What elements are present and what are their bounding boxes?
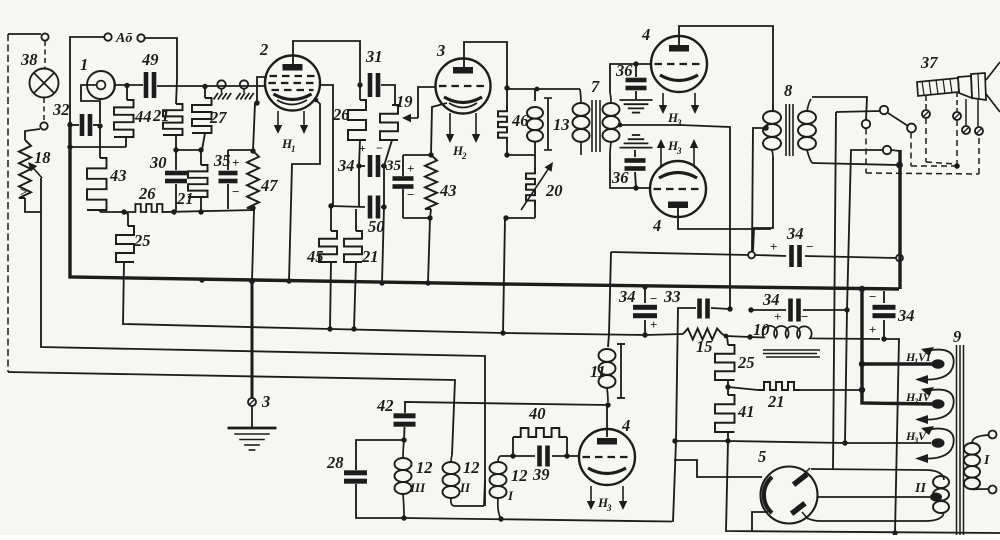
connector pin 3 bbox=[962, 99, 970, 134]
svg-text:+: + bbox=[774, 309, 781, 324]
transformer T9 core bbox=[953, 327, 964, 535]
svg-text:37: 37 bbox=[920, 53, 938, 72]
wire 7sec top to grid bbox=[610, 64, 651, 93]
terminal B+ on main bbox=[896, 255, 903, 262]
node c34a left bbox=[356, 163, 361, 168]
svg-text:21: 21 bbox=[152, 106, 170, 125]
node element1 lead bbox=[124, 83, 129, 88]
svg-text:34: 34 bbox=[618, 287, 636, 306]
svg-text:18: 18 bbox=[34, 148, 51, 167]
dashed y174 bbox=[866, 173, 979, 174]
capacitor C49 bbox=[141, 50, 159, 98]
wire coil11 top bbox=[608, 252, 611, 347]
svg-text:47: 47 bbox=[260, 176, 278, 195]
wire 46 col down W1 bbox=[503, 218, 505, 333]
node coil3 bottom bbox=[401, 515, 406, 520]
resistor R21c bbox=[344, 209, 379, 329]
svg-text:26: 26 bbox=[138, 184, 156, 203]
svg-text:41: 41 bbox=[737, 402, 755, 421]
node C33 right bbox=[727, 306, 732, 311]
svg-text:II: II bbox=[914, 481, 926, 496]
node bus 202 bbox=[199, 277, 204, 282]
inductor L46 tap section bbox=[498, 88, 507, 155]
wire C28 bottom bbox=[356, 484, 404, 518]
wire tube2 grid2 bbox=[257, 77, 267, 103]
svg-text:>: > bbox=[20, 184, 27, 199]
node bus 428 bbox=[425, 280, 430, 285]
terminal sw C bbox=[907, 124, 916, 133]
terminal phones 1 bbox=[214, 80, 232, 99]
svg-text:IV: IV bbox=[917, 390, 932, 404]
svg-text:7: 7 bbox=[591, 77, 600, 96]
svg-text:+: + bbox=[650, 317, 657, 332]
wire coil10 right bbox=[821, 338, 880, 341]
terminal I top bbox=[989, 431, 997, 439]
node grid top tube4 bbox=[633, 61, 638, 66]
node x676-441 bbox=[672, 438, 677, 443]
svg-text:26: 26 bbox=[332, 105, 350, 124]
svg-text:+: + bbox=[407, 161, 414, 176]
resistor R27 bbox=[192, 86, 227, 150]
svg-text:21: 21 bbox=[767, 392, 785, 411]
wire tube3 cathode to R43b bbox=[431, 103, 447, 155]
coil L11 bbox=[590, 349, 616, 402]
svg-text:4: 4 bbox=[652, 216, 661, 235]
wire C32 left bbox=[70, 124, 79, 126]
svg-text:31: 31 bbox=[365, 47, 383, 66]
winding II top wire bbox=[811, 469, 944, 480]
tube V2 bbox=[259, 40, 320, 111]
connector pin 1 bbox=[922, 96, 955, 164]
svg-text:9: 9 bbox=[953, 327, 961, 346]
winding I bbox=[964, 435, 990, 490]
transformer T7 secondary bbox=[603, 93, 620, 155]
svg-text:11: 11 bbox=[590, 362, 606, 381]
svg-text:34: 34 bbox=[762, 290, 780, 309]
capacitor C50 bbox=[368, 196, 385, 237]
svg-text:49: 49 bbox=[141, 50, 159, 69]
coil L12-I bbox=[490, 456, 528, 519]
node 43b bottom bbox=[427, 215, 432, 220]
terminal sw B bbox=[880, 106, 888, 114]
resistor R18 bbox=[19, 140, 51, 198]
terminal ground bbox=[248, 398, 256, 406]
node C32 left bbox=[67, 122, 72, 127]
wire anode V4c bbox=[606, 405, 608, 437]
coil L46 bbox=[511, 89, 543, 155]
svg-text:−: − bbox=[869, 289, 876, 304]
svg-text:43: 43 bbox=[439, 181, 457, 200]
node bottom 895 bbox=[892, 530, 897, 535]
wire element1 to cap32 bbox=[81, 85, 100, 123]
core bar 13 bbox=[544, 98, 570, 150]
wire dashed lamp to terminal bbox=[43, 98, 45, 121]
switch blade bbox=[888, 113, 908, 126]
node rail 201 bbox=[198, 209, 203, 214]
svg-text:1: 1 bbox=[291, 144, 296, 154]
node 45-W1 bbox=[327, 326, 332, 331]
capacitor C36b bbox=[611, 135, 653, 188]
wire C32 right bbox=[93, 124, 100, 126]
wire 46 bottom rail bbox=[507, 154, 535, 156]
filament arrows H3a bbox=[659, 93, 699, 128]
node rail 124 bbox=[121, 209, 126, 214]
node c50 right bbox=[381, 204, 386, 209]
connector pin 4 bbox=[975, 99, 983, 135]
node 46 rail bbox=[535, 87, 540, 92]
node H3V tap bbox=[842, 440, 847, 445]
node screen-50 bbox=[328, 203, 333, 208]
node 20 bottom bbox=[503, 215, 508, 220]
terminal below lamp bbox=[40, 122, 47, 129]
node W1-15 bbox=[724, 334, 729, 339]
wire ground lead bbox=[251, 281, 254, 398]
wire element1 right bbox=[115, 84, 143, 86]
svg-text:+: + bbox=[232, 155, 239, 170]
terminal sw D bbox=[883, 146, 891, 154]
resistor R43a bbox=[87, 125, 127, 212]
node bus 289 bbox=[286, 278, 291, 283]
wire tube2 anode bbox=[293, 41, 360, 85]
node tube2 g2 bbox=[254, 100, 259, 105]
node dashed 957 bbox=[954, 163, 960, 169]
filament arrows H3c bbox=[587, 486, 627, 513]
winding H2-IV bbox=[905, 387, 954, 424]
wire y207 bbox=[331, 206, 365, 207]
capacitor C39 bbox=[532, 446, 550, 485]
svg-text:8: 8 bbox=[784, 81, 792, 100]
capacitor C32 bbox=[52, 100, 92, 136]
node 42-coil3 bbox=[401, 437, 406, 442]
svg-text:−: − bbox=[232, 184, 239, 199]
node R27 bottom bbox=[198, 147, 203, 152]
resistor R26b bbox=[332, 85, 366, 140]
wire c34e to bottom rail bbox=[884, 339, 899, 533]
svg-text:33: 33 bbox=[663, 287, 681, 306]
wire 41 to bottom rail bbox=[726, 441, 1000, 533]
svg-text:−: − bbox=[650, 291, 657, 306]
svg-text:39: 39 bbox=[532, 465, 550, 484]
capacitor C31 bbox=[365, 47, 383, 97]
svg-text:40: 40 bbox=[528, 404, 546, 423]
wire T8 ct feed bbox=[752, 128, 766, 251]
node x503-W1 bbox=[500, 330, 505, 335]
node 40 left bbox=[510, 453, 515, 458]
node R21a bottom bbox=[173, 147, 178, 152]
wire sw B col down bbox=[833, 112, 836, 470]
wire R21a to R27 bottom bbox=[176, 149, 201, 151]
svg-text:3: 3 bbox=[436, 41, 445, 60]
connector X37 bbox=[917, 53, 1000, 112]
wire antenna top-left bbox=[8, 34, 41, 372]
svg-text:3: 3 bbox=[606, 503, 612, 513]
svg-text:36: 36 bbox=[615, 61, 633, 80]
svg-text:43: 43 bbox=[109, 166, 127, 185]
terminal A2 bbox=[137, 34, 144, 41]
transformer T8 core bbox=[784, 81, 793, 156]
winding H3-V bbox=[905, 426, 954, 463]
resistor R15 bbox=[683, 329, 726, 357]
svg-text:21: 21 bbox=[361, 247, 379, 266]
svg-text:II: II bbox=[459, 480, 471, 495]
node 47 top bbox=[250, 148, 255, 153]
wire T8sec bottom run bbox=[812, 163, 899, 165]
node T8sec bottom bbox=[896, 162, 903, 169]
filament arrows H3b bbox=[657, 138, 698, 166]
wiper arrow 19 bbox=[396, 87, 436, 122]
capacitor C30 bbox=[149, 150, 187, 212]
wire caps right joins bbox=[381, 140, 392, 283]
resistor R21d bbox=[728, 382, 862, 411]
node junction 27 bbox=[202, 84, 207, 89]
resistor R44 bbox=[114, 86, 152, 147]
wire W3 line bbox=[8, 372, 455, 455]
wire tube4b anode bbox=[678, 206, 771, 229]
capacitor C34e bbox=[869, 289, 915, 339]
svg-text:35: 35 bbox=[385, 158, 402, 174]
dashed pin2 up bbox=[956, 120, 958, 166]
node C32 right bbox=[97, 123, 102, 128]
svg-text:50: 50 bbox=[368, 217, 385, 236]
svg-text:4: 4 bbox=[621, 416, 630, 435]
svg-text:Аō: Аō bbox=[115, 31, 132, 46]
node C34d left bbox=[748, 307, 753, 312]
node 41 bottom bbox=[725, 438, 730, 443]
wire sw D to thick bbox=[891, 150, 900, 151]
winding II bbox=[914, 476, 949, 513]
wire terminal to ground bbox=[251, 406, 253, 427]
transformer T8 secondary bbox=[798, 99, 816, 163]
terminal phones 2 bbox=[236, 80, 254, 99]
wire y402 line bbox=[405, 402, 608, 413]
rail top 35a-47 bbox=[228, 149, 253, 151]
capacitor C34d on y310 bbox=[751, 290, 848, 324]
svg-text:44: 44 bbox=[134, 107, 152, 126]
node 21c-W1 bbox=[351, 326, 356, 331]
filament arrows H2 bbox=[446, 113, 480, 161]
wire screen tube2 down bbox=[319, 85, 333, 206]
resistor R25a bbox=[116, 212, 151, 262]
svg-text:3: 3 bbox=[676, 118, 682, 128]
svg-text:VI: VI bbox=[918, 350, 932, 364]
terminal antenna bbox=[41, 33, 48, 40]
dashed sw C down bbox=[910, 133, 912, 167]
resistor R25b bbox=[715, 336, 755, 387]
node rail 174 bbox=[171, 209, 176, 214]
node 47 bottom bbox=[250, 205, 255, 210]
dashed pin4 up bbox=[978, 134, 980, 174]
transformer T8 primary bbox=[763, 104, 781, 157]
resistor R41 bbox=[715, 387, 755, 441]
node 43b top bbox=[428, 152, 433, 157]
svg-text:5: 5 bbox=[758, 447, 766, 466]
node C34c bottom W1 bbox=[642, 332, 647, 337]
wire cap33 col bottom bbox=[673, 441, 676, 522]
variable inductor L20 bbox=[521, 155, 563, 218]
wire T8sec top bbox=[812, 97, 867, 120]
svg-text:12: 12 bbox=[463, 458, 480, 477]
svg-text:35: 35 bbox=[213, 151, 231, 170]
svg-text:3: 3 bbox=[676, 146, 682, 156]
thick vertical B wire bbox=[898, 150, 901, 289]
coil L12-II bbox=[443, 455, 486, 506]
wire tube4a anode bbox=[679, 26, 773, 112]
svg-text:−: − bbox=[801, 309, 808, 324]
wire 26b to caps bbox=[359, 140, 365, 207]
wire R18 bottom bbox=[25, 198, 41, 212]
wire C49 to terminals bbox=[157, 85, 266, 87]
wire A1 to bus bbox=[70, 37, 104, 122]
wire B+ line bbox=[611, 252, 896, 258]
connector pin 2 bbox=[953, 92, 961, 120]
thick wire H1VI bbox=[862, 362, 934, 365]
svg-text:32: 32 bbox=[52, 100, 70, 119]
resistor R21a bbox=[152, 104, 183, 150]
resistor R45 bbox=[306, 206, 337, 329]
wire 42 to 28 bbox=[356, 440, 404, 470]
node bus 862 bbox=[859, 286, 865, 292]
svg-text:36: 36 bbox=[611, 168, 629, 187]
resistor R43b bbox=[425, 155, 457, 209]
capacitor C36a bbox=[615, 61, 647, 99]
svg-text:45: 45 bbox=[306, 247, 324, 266]
wire 43b bottom to bus bbox=[428, 209, 431, 283]
terminal A1 bbox=[104, 31, 132, 46]
resistor R47 bbox=[247, 151, 278, 208]
svg-text:1: 1 bbox=[80, 55, 88, 74]
terminal B+ junction bbox=[748, 252, 755, 259]
node bus 645 bbox=[642, 284, 647, 289]
winding II bottom wire bbox=[805, 512, 944, 521]
svg-text:−: − bbox=[806, 239, 813, 254]
wire A2 down to R21 bbox=[145, 38, 177, 104]
resistor R40 bbox=[513, 404, 567, 456]
capacitor C35a bbox=[213, 150, 239, 209]
capacitor C34a bbox=[337, 141, 383, 177]
wire C31 right bbox=[381, 85, 395, 105]
transformer T7 core bbox=[591, 77, 600, 152]
svg-text:I: I bbox=[983, 453, 990, 468]
node fil tube2 bbox=[314, 98, 319, 103]
svg-text:21: 21 bbox=[176, 189, 194, 208]
wire C33 right bbox=[711, 308, 730, 309]
resistor R26c bbox=[380, 105, 398, 140]
wire W1 screen supply bbox=[123, 262, 683, 335]
svg-text:28: 28 bbox=[326, 453, 344, 472]
node T8 center tap bbox=[763, 125, 769, 131]
wire C42 bottom bbox=[403, 427, 406, 440]
ground C36a bbox=[620, 100, 653, 113]
winding H1-VI bbox=[905, 347, 954, 384]
svg-text:+: + bbox=[869, 322, 876, 337]
node 46 bottom bbox=[504, 152, 509, 157]
svg-text:−: − bbox=[407, 187, 414, 202]
tube V4c bbox=[579, 416, 635, 485]
capacitor C34b bbox=[770, 224, 813, 267]
node W1 coil10 bbox=[747, 334, 752, 339]
node bus 382 bbox=[379, 280, 384, 285]
lamp 38 bbox=[20, 50, 59, 98]
node coil1 bottom bbox=[498, 516, 503, 521]
svg-text:−: − bbox=[376, 141, 383, 155]
svg-text:46: 46 bbox=[511, 111, 529, 130]
svg-text:10: 10 bbox=[753, 320, 770, 339]
capacitor C35b bracket bbox=[385, 155, 431, 218]
svg-text:I: I bbox=[507, 488, 514, 503]
svg-text:27: 27 bbox=[209, 108, 227, 127]
winding II center bbox=[817, 493, 942, 502]
svg-text:25: 25 bbox=[737, 353, 755, 372]
wire 7sec center tap bbox=[618, 123, 730, 309]
coil L10 bbox=[726, 320, 821, 339]
wire tube3 anode bbox=[464, 42, 507, 88]
node 46 top bbox=[504, 85, 509, 90]
rail y212 with resistor R26a bbox=[100, 184, 255, 212]
node 31 junction bbox=[357, 82, 362, 87]
terminal I bottom bbox=[989, 486, 997, 494]
node 40 right bbox=[564, 453, 569, 458]
coil L10 core bbox=[763, 350, 820, 357]
svg-text:42: 42 bbox=[376, 396, 394, 415]
coil L12-III bbox=[395, 440, 433, 518]
core bar 11 bbox=[617, 344, 625, 398]
wire T8 primary bottom bbox=[753, 157, 773, 251]
svg-text:12: 12 bbox=[511, 466, 528, 485]
svg-text:2: 2 bbox=[461, 151, 467, 161]
wire grid y456 bbox=[500, 455, 580, 457]
svg-text:15: 15 bbox=[696, 337, 713, 356]
tube V4b bbox=[650, 161, 706, 235]
svg-text:13: 13 bbox=[553, 115, 570, 134]
dashed y166 bbox=[911, 165, 955, 167]
tube V5 bbox=[758, 447, 818, 524]
wire sw D left down bbox=[845, 150, 883, 443]
wire tube2 cathode-grid to 47 bbox=[253, 103, 255, 151]
node c34a right bbox=[381, 163, 386, 168]
svg-text:34: 34 bbox=[897, 306, 915, 325]
wire y147 bbox=[70, 146, 126, 148]
tube V3 bbox=[436, 41, 491, 114]
element 1 detector bbox=[80, 55, 115, 99]
capacitor C33 bbox=[663, 287, 710, 319]
wire terminal to R18 bbox=[25, 129, 40, 140]
svg-text:19: 19 bbox=[396, 92, 413, 111]
transformer T7 primary bbox=[573, 89, 590, 155]
svg-text:34: 34 bbox=[786, 224, 804, 243]
capacitor C28 bbox=[326, 453, 367, 484]
resistor R21b bbox=[176, 150, 208, 212]
wire fil tube2 to bus bbox=[289, 100, 320, 281]
node ground bus bbox=[249, 278, 255, 284]
wire switch blade feed bbox=[836, 111, 880, 112]
tube V4a bbox=[641, 25, 707, 92]
svg-text:V: V bbox=[918, 429, 927, 443]
wire C33 left down bbox=[676, 308, 696, 441]
dashed sw A down bbox=[865, 129, 867, 174]
wire rail down to bus bbox=[252, 210, 254, 281]
wire wiper down and W2 line bbox=[41, 178, 485, 506]
wire tube5 bottom left bbox=[752, 512, 768, 531]
rail 46 top bbox=[507, 88, 580, 90]
wire bottom y519 bbox=[404, 518, 672, 522]
svg-text:12: 12 bbox=[416, 458, 433, 477]
capacitor C34c bbox=[618, 287, 657, 335]
svg-text:+: + bbox=[770, 239, 777, 254]
svg-text:2: 2 bbox=[259, 40, 268, 59]
wire y441 H3V bbox=[675, 441, 931, 443]
node C34d right bbox=[844, 307, 849, 312]
ground symbol bbox=[228, 392, 277, 450]
